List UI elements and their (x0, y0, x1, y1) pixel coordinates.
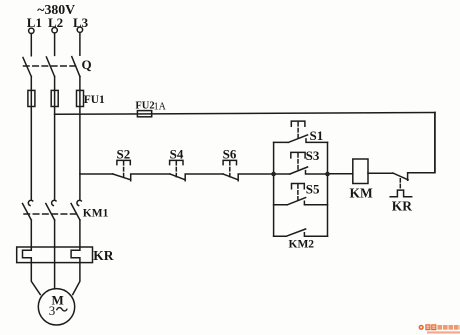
svg-text:3: 3 (49, 303, 56, 318)
svg-text:S2: S2 (117, 147, 131, 162)
svg-text:L2: L2 (48, 15, 63, 30)
svg-text:FU2: FU2 (135, 101, 154, 112)
svg-text:KM2: KM2 (289, 238, 315, 250)
svg-text:S6: S6 (223, 147, 237, 162)
svg-text:KM1: KM1 (83, 208, 109, 220)
svg-text:1A: 1A (154, 102, 167, 113)
svg-text:KR: KR (93, 248, 114, 263)
svg-text:S1: S1 (310, 128, 324, 143)
svg-text:L3: L3 (73, 15, 89, 30)
svg-text:L1: L1 (27, 15, 42, 30)
svg-text:KM: KM (350, 185, 374, 200)
svg-text:FU1: FU1 (84, 94, 105, 106)
svg-text:Q: Q (82, 57, 92, 72)
svg-text:S3: S3 (306, 148, 320, 163)
svg-text:KR: KR (392, 199, 413, 214)
svg-text:S5: S5 (306, 182, 320, 197)
svg-text:S4: S4 (170, 147, 184, 162)
